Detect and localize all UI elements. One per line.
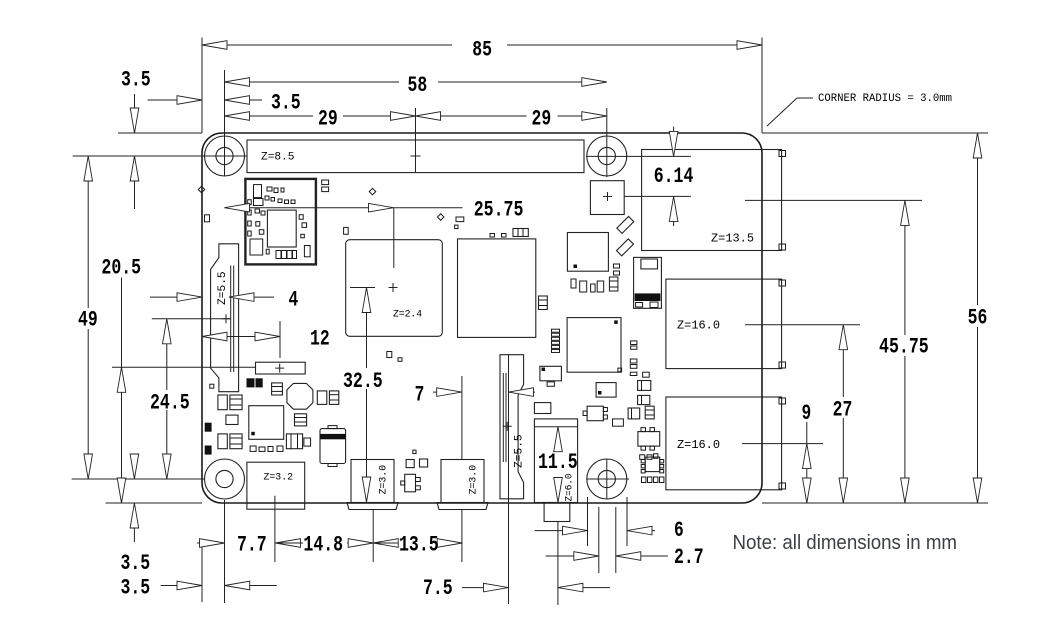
SOIC-4 IC U7 bbox=[638, 432, 660, 447]
dim 6.14 upper arrow bbox=[673, 127, 675, 132]
dim 49 line bbox=[87, 181, 89, 308]
dim 3.5 vertical top-left leader bbox=[134, 94, 136, 108]
GPIO 40-pin header J8 bbox=[247, 140, 584, 173]
chip U5 mid bbox=[567, 318, 621, 373]
ext line hole center line left bbox=[73, 155, 247, 157]
svg-text:12: 12 bbox=[310, 326, 330, 351]
dim 11.5 arrows bbox=[554, 427, 563, 452]
dim 6 line bbox=[535, 530, 563, 532]
LPDDR4 RAM U10 bbox=[458, 239, 536, 338]
dim 29 left line bbox=[225, 115, 314, 117]
dim 29 right arrows bbox=[416, 112, 441, 121]
svg-text:3.5: 3.5 bbox=[121, 68, 151, 93]
ext line SoC center tick bbox=[350, 287, 375, 289]
dim 49 arrows bbox=[84, 156, 93, 181]
dim 24.5 line bbox=[166, 344, 168, 390]
USB-C power connector J7 bbox=[247, 462, 305, 509]
svg-text:58: 58 bbox=[408, 73, 428, 98]
ext line pad tangent left bbox=[587, 497, 589, 546]
svg-text:7.5: 7.5 bbox=[423, 576, 453, 601]
PMIC cluster capacitors bbox=[247, 379, 254, 387]
caps near USB2 bbox=[628, 408, 640, 419]
dim 20.5 arrows bbox=[117, 367, 126, 392]
mounting hole bottom-right pad bbox=[587, 459, 627, 499]
camera connector J4 bbox=[500, 355, 524, 499]
ext line hole TR vertical bbox=[606, 136, 608, 177]
dim 20.5 line bbox=[121, 278, 123, 368]
dim 4 arrows bbox=[177, 293, 202, 302]
dim 12 arrows bbox=[202, 332, 227, 341]
PoE header J6 bbox=[590, 181, 624, 215]
svg-text:25.75: 25.75 bbox=[474, 197, 524, 222]
svg-text:Z=2.4: Z=2.4 bbox=[393, 310, 422, 321]
dim 7 arrows bbox=[437, 388, 462, 397]
dim 12 line bbox=[202, 336, 280, 338]
ext line top edge right bbox=[762, 132, 988, 134]
dim 3.5 top line bbox=[148, 99, 177, 101]
dim 29 left arrows bbox=[225, 112, 250, 121]
USB2 stacked jack J10 bbox=[666, 397, 782, 490]
DSI display connector J3 bbox=[211, 244, 239, 392]
svg-text:3.5: 3.5 bbox=[271, 91, 301, 116]
dim 85 line bbox=[202, 44, 452, 46]
dim 29 right line bbox=[416, 115, 527, 117]
dim 32.5 arrows bbox=[362, 288, 371, 313]
ext line camera center bbox=[508, 355, 510, 604]
ext line USB3 center bbox=[745, 324, 860, 326]
corner radius leader bbox=[767, 98, 813, 126]
WiFi module U4 bbox=[245, 179, 316, 265]
dim 27 line bbox=[842, 350, 844, 397]
PMIC chip U6 bbox=[249, 406, 284, 440]
ext line SoC center vertical bbox=[393, 208, 395, 268]
fiducial diamonds bbox=[369, 188, 376, 195]
svg-text:13.5: 13.5 bbox=[399, 532, 439, 557]
svg-text:Z=3.0: Z=3.0 bbox=[378, 465, 389, 495]
ext line PoE center bbox=[624, 195, 691, 197]
dim 3.5 bottom horizontal arrows bbox=[177, 581, 202, 590]
ext line DSI center bbox=[152, 318, 231, 320]
ext line hole tangent right bbox=[615, 507, 617, 573]
dim 25.75 arrows bbox=[225, 203, 250, 212]
svg-text:7.7: 7.7 bbox=[237, 532, 267, 557]
svg-text:6.14: 6.14 bbox=[654, 164, 694, 189]
svg-text:29: 29 bbox=[318, 107, 338, 132]
ext line hole BR vertical bbox=[606, 459, 608, 499]
svg-text:56: 56 bbox=[968, 305, 988, 330]
dim 7.5 line bbox=[462, 587, 484, 589]
micro HDMI0 connector J1 bbox=[351, 460, 394, 503]
svg-text:85: 85 bbox=[472, 37, 492, 62]
audio jack J14 bbox=[534, 419, 577, 503]
ext line power header center bbox=[279, 321, 281, 358]
pin pads column bbox=[552, 329, 560, 332]
dim 3.5 vertical top-left arrows bbox=[130, 108, 139, 133]
svg-text:3.5: 3.5 bbox=[121, 575, 151, 600]
ext line hole BR horizontal bbox=[587, 478, 629, 480]
ext line bottom hole line left bbox=[72, 478, 204, 480]
dim 3.5 bottom-left vertical tail bbox=[133, 528, 135, 542]
dim 58 arrows bbox=[225, 78, 250, 87]
ext line hole tangent left bbox=[598, 507, 600, 573]
mounting hole top-left pad bbox=[205, 136, 245, 176]
dim 45.75 arrows bbox=[901, 200, 910, 225]
tiny parts below SoC bbox=[387, 352, 392, 358]
dim 13.5 arrows bbox=[373, 539, 398, 548]
power header bbox=[256, 362, 306, 374]
dim 7 line bbox=[433, 391, 437, 393]
svg-text:3.5: 3.5 bbox=[121, 551, 151, 576]
dim 56 line bbox=[977, 158, 979, 305]
svg-text:Z=3.0: Z=3.0 bbox=[468, 465, 479, 495]
mounting hole bottom-left pad bbox=[205, 459, 245, 499]
svg-text:Z=6.0: Z=6.0 bbox=[564, 474, 575, 502]
capacitor row below chip U2 bbox=[571, 279, 576, 288]
Ethernet jack J5 bbox=[642, 150, 782, 251]
ext line bottom edge left bbox=[106, 502, 202, 504]
ext line USB2 center bbox=[742, 443, 823, 445]
ext line power header bbox=[112, 366, 256, 368]
SOT-23 transistor Q1 bbox=[405, 474, 416, 492]
svg-text:CORNER RADIUS = 3.0mm: CORNER RADIUS = 3.0mm bbox=[818, 93, 952, 105]
dim 24.5 arrows bbox=[163, 319, 172, 344]
ext line board edge bottom-left bbox=[201, 540, 203, 602]
micro HDMI1 connector J2 bbox=[441, 460, 484, 503]
svg-text:29: 29 bbox=[532, 107, 552, 132]
mounting hole top-right pad bbox=[587, 136, 627, 176]
caps right of wifi bbox=[322, 180, 329, 185]
svg-text:Note: all dimensions in mm: Note: all dimensions in mm bbox=[733, 532, 958, 554]
ext line audio center bbox=[557, 521, 559, 605]
dim 7.5 arrows bbox=[484, 583, 509, 592]
dim 7.7 row left arrow bbox=[197, 542, 200, 544]
ext line top edge left bbox=[118, 132, 202, 134]
dim 9 arrows bbox=[803, 444, 812, 469]
ext line pad tangent right bbox=[626, 497, 628, 546]
dim 2.7 line bbox=[546, 555, 574, 557]
dim 3.5 bottom-left vertical arrows bbox=[130, 454, 139, 479]
SOT-23 transistor Q2 bbox=[587, 406, 603, 421]
svg-text:20.5: 20.5 bbox=[101, 255, 141, 280]
dim 3.5 bottom horizontal line bbox=[161, 585, 177, 587]
dim 2.7 arrows bbox=[574, 552, 599, 561]
dim 58 line bbox=[225, 81, 400, 83]
ext line hole BL bottom bbox=[224, 500, 226, 603]
dim 4 line bbox=[150, 296, 177, 298]
svg-text:Z=13.5: Z=13.5 bbox=[711, 232, 754, 246]
SoC BCM2711 U1 bbox=[346, 240, 443, 337]
ext line hole center top-left bbox=[224, 70, 226, 176]
dim 32.5 line bbox=[366, 313, 368, 369]
IC U8 with side pins bbox=[645, 457, 660, 472]
svg-text:32.5: 32.5 bbox=[343, 369, 383, 394]
small parts right of SoC bbox=[344, 227, 349, 234]
svg-text:Z=16.0: Z=16.0 bbox=[677, 438, 720, 452]
PCB board outline 85x56mm rounded corners bbox=[202, 133, 762, 503]
wifi module internal components bbox=[254, 185, 262, 198]
svg-text:6: 6 bbox=[674, 518, 684, 543]
dim 25.75 line bbox=[225, 207, 369, 209]
dim 27 arrows bbox=[839, 325, 848, 350]
svg-text:27: 27 bbox=[833, 398, 853, 423]
USB controller chip U3 bbox=[634, 257, 662, 308]
ext line ethernet center bbox=[745, 199, 922, 201]
svg-text:Z=8.5: Z=8.5 bbox=[261, 152, 295, 164]
svg-text:45.75: 45.75 bbox=[879, 335, 929, 360]
dim 6 arrows bbox=[563, 526, 588, 535]
diagonal resistors pair bbox=[617, 216, 634, 233]
svg-text:24.5: 24.5 bbox=[150, 390, 190, 415]
svg-text:49: 49 bbox=[78, 308, 98, 333]
svg-text:Z=3.2: Z=3.2 bbox=[264, 473, 294, 484]
chip U2 top bbox=[567, 233, 608, 272]
svg-text:14.8: 14.8 bbox=[303, 532, 343, 557]
ext line board right edge top bbox=[761, 38, 763, 134]
dim 14.8 arrows bbox=[276, 539, 301, 548]
svg-text:4: 4 bbox=[289, 288, 299, 313]
svg-text:Z=5.5: Z=5.5 bbox=[514, 434, 526, 468]
components right of audio jack bbox=[540, 366, 562, 381]
svg-text:11.5: 11.5 bbox=[538, 450, 578, 475]
svg-text:Z=16.0: Z=16.0 bbox=[677, 319, 720, 333]
ext line board left edge top bbox=[201, 38, 203, 134]
dim 6.14 lower arrow bbox=[669, 196, 678, 221]
dim 9 line bbox=[806, 422, 808, 444]
ext line hole center top-right bbox=[606, 108, 608, 136]
svg-text:7: 7 bbox=[415, 383, 425, 408]
dim 45.75 line bbox=[904, 225, 906, 335]
ext line hole line right bbox=[586, 155, 691, 157]
pads near board left edge bbox=[205, 215, 210, 222]
svg-text:2.7: 2.7 bbox=[674, 545, 704, 570]
inductor L1 octagon bbox=[287, 383, 313, 409]
USB3 stacked jack J9 bbox=[666, 279, 782, 369]
dim 85 arrows bbox=[202, 41, 227, 50]
dim 3.5 top arrows bbox=[177, 96, 202, 105]
electrolytic capacitor C98 bbox=[320, 429, 346, 464]
svg-text:Z=5.5: Z=5.5 bbox=[217, 271, 229, 304]
ext line bottom edge right bbox=[762, 502, 988, 504]
dim 56 arrows bbox=[973, 133, 982, 158]
